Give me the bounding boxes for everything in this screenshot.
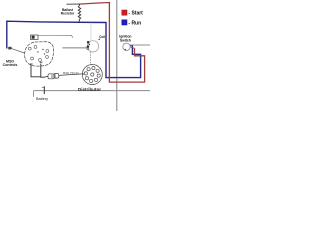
svg-text:Switch: Switch <box>120 38 131 42</box>
svg-text:Resistor: Resistor <box>61 12 75 16</box>
svg-text:Controls: Controls <box>3 63 18 67</box>
svg-text:MSD 750 Pu: MSD 750 Pu <box>63 71 80 75</box>
svg-text:- Run: - Run <box>128 21 141 27</box>
svg-text:Distributor: Distributor <box>78 87 101 92</box>
svg-text:Battery: Battery <box>36 97 48 101</box>
svg-text:- Start: - Start <box>128 11 143 17</box>
